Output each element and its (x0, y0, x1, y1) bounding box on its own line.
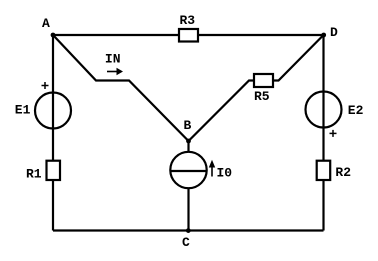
svg-text:E2: E2 (348, 103, 364, 118)
svg-text:R5: R5 (254, 89, 270, 104)
svg-text:A: A (42, 16, 50, 31)
svg-text:R3: R3 (180, 13, 196, 28)
svg-text:E1: E1 (15, 103, 31, 118)
svg-text:D: D (330, 25, 338, 40)
svg-text:R2: R2 (335, 165, 351, 180)
svg-text:B: B (184, 118, 192, 133)
svg-text:R1: R1 (26, 166, 42, 181)
svg-text:C: C (182, 235, 190, 250)
svg-text:I0: I0 (217, 166, 233, 181)
svg-text:IN: IN (105, 51, 121, 66)
